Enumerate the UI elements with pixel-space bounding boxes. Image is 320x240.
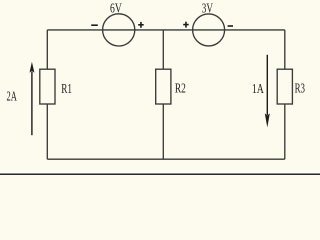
current arrow 2A (upward)	[30, 62, 35, 135]
svg-text:R1: R1	[61, 82, 72, 97]
polarity minus (left of 6V source)	[91, 24, 98, 26]
wire left branch lower	[46, 104, 48, 159]
current arrow 1A (downward)	[265, 55, 270, 128]
svg-text:R3: R3	[295, 82, 305, 97]
wire middle branch upper	[162, 30, 164, 69]
wire left branch upper	[46, 30, 48, 69]
resistor R3 body	[277, 69, 292, 104]
resistor R2 body	[156, 69, 171, 104]
bottom window edge: white row then dark strip	[0, 172, 320, 174]
svg-text:3V: 3V	[202, 1, 213, 16]
polarity plus (left of 3V source)	[183, 22, 189, 28]
wire bottom	[47, 158, 284, 160]
wire right branch lower	[284, 104, 286, 159]
svg-text:R2: R2	[175, 81, 186, 96]
voltage source U2 (3V) circle	[193, 14, 225, 46]
resistor R1 body	[40, 69, 55, 104]
svg-text:2A: 2A	[7, 89, 18, 104]
wire middle branch lower	[162, 104, 164, 159]
svg-text:1A: 1A	[252, 82, 265, 97]
polarity minus (right of 3V source)	[228, 25, 233, 27]
voltage source U1 (6V) circle	[103, 14, 135, 46]
wire top: left corner to right corner through both sources	[47, 29, 284, 31]
svg-text:6V: 6V	[110, 1, 122, 16]
polarity plus (right of 6V source)	[138, 22, 144, 28]
wire right branch upper	[284, 30, 286, 69]
